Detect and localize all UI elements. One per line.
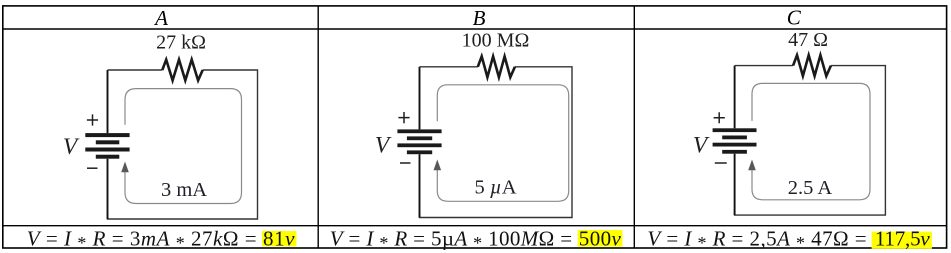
battery C long plate (+) xyxy=(713,128,757,132)
wire A top-right + right + bottom segment xyxy=(108,70,258,219)
battery C minus sign xyxy=(715,162,727,164)
svg-text:117,5v: 117,5v xyxy=(875,226,930,250)
svg-text:B: B xyxy=(473,6,486,30)
svg-text:A: A xyxy=(153,6,168,30)
wire A current-direction loop xyxy=(125,89,242,204)
highlight result box xyxy=(262,231,297,246)
svg-text:2.5 A: 2.5 A xyxy=(788,177,833,199)
current arrow C (direction) xyxy=(748,160,756,171)
resistor C zigzag xyxy=(793,55,831,76)
wire C top-right + right + bottom segment xyxy=(735,66,886,216)
svg-text:47 Ω: 47 Ω xyxy=(788,29,828,51)
svg-text:27 kΩ: 27 kΩ xyxy=(156,31,206,53)
highlight result box xyxy=(578,230,623,247)
wire C current-direction loop xyxy=(752,83,870,199)
battery C plus sign xyxy=(714,112,725,123)
current arrow B (direction) xyxy=(434,160,442,171)
battery A minus sign xyxy=(87,167,98,169)
battery B short plate (−) xyxy=(407,150,432,154)
resistor A zigzag xyxy=(162,60,202,81)
battery A plus sign xyxy=(87,114,98,125)
svg-text:500v: 500v xyxy=(579,226,622,250)
highlight result box xyxy=(872,232,932,249)
resistor B zigzag xyxy=(478,56,515,77)
battery B plus sign xyxy=(398,112,409,123)
wire B top-right + right + bottom segment xyxy=(420,67,573,218)
svg-text:81v: 81v xyxy=(263,226,295,250)
battery C long plate xyxy=(713,143,757,147)
battery B long plate (+) xyxy=(397,129,441,133)
battery C short plate xyxy=(722,136,747,140)
svg-text:3 mA: 3 mA xyxy=(161,179,207,201)
battery A long plate (+) xyxy=(85,133,129,137)
svg-text:100 MΩ: 100 MΩ xyxy=(462,29,530,51)
battery A short plate (−) xyxy=(96,155,120,159)
svg-text:C: C xyxy=(787,6,802,30)
svg-text:V = I * R = 2,5A * 47Ω =: V = I * R = 2,5A * 47Ω = xyxy=(647,226,866,252)
wire C top-left segment xyxy=(734,66,736,129)
wire B top-left segment xyxy=(419,67,421,130)
battery C short plate (−) xyxy=(722,150,747,154)
battery A long plate xyxy=(85,148,129,152)
battery B minus sign xyxy=(400,162,411,164)
wire A top-left segment xyxy=(107,70,109,133)
svg-text:V = I * R = 5µA * 100MΩ =: V = I * R = 5µA * 100MΩ = xyxy=(330,226,572,252)
current arrow A (direction) xyxy=(121,162,129,173)
svg-text:5 µA: 5 µA xyxy=(475,177,517,199)
battery A short plate xyxy=(96,140,120,144)
wire B current-direction loop xyxy=(437,85,568,202)
svg-text:V = I * R = 3mA * 27kΩ =: V = I * R = 3mA * 27kΩ = xyxy=(27,226,257,252)
battery B short plate xyxy=(407,136,432,140)
battery B long plate xyxy=(397,143,441,147)
